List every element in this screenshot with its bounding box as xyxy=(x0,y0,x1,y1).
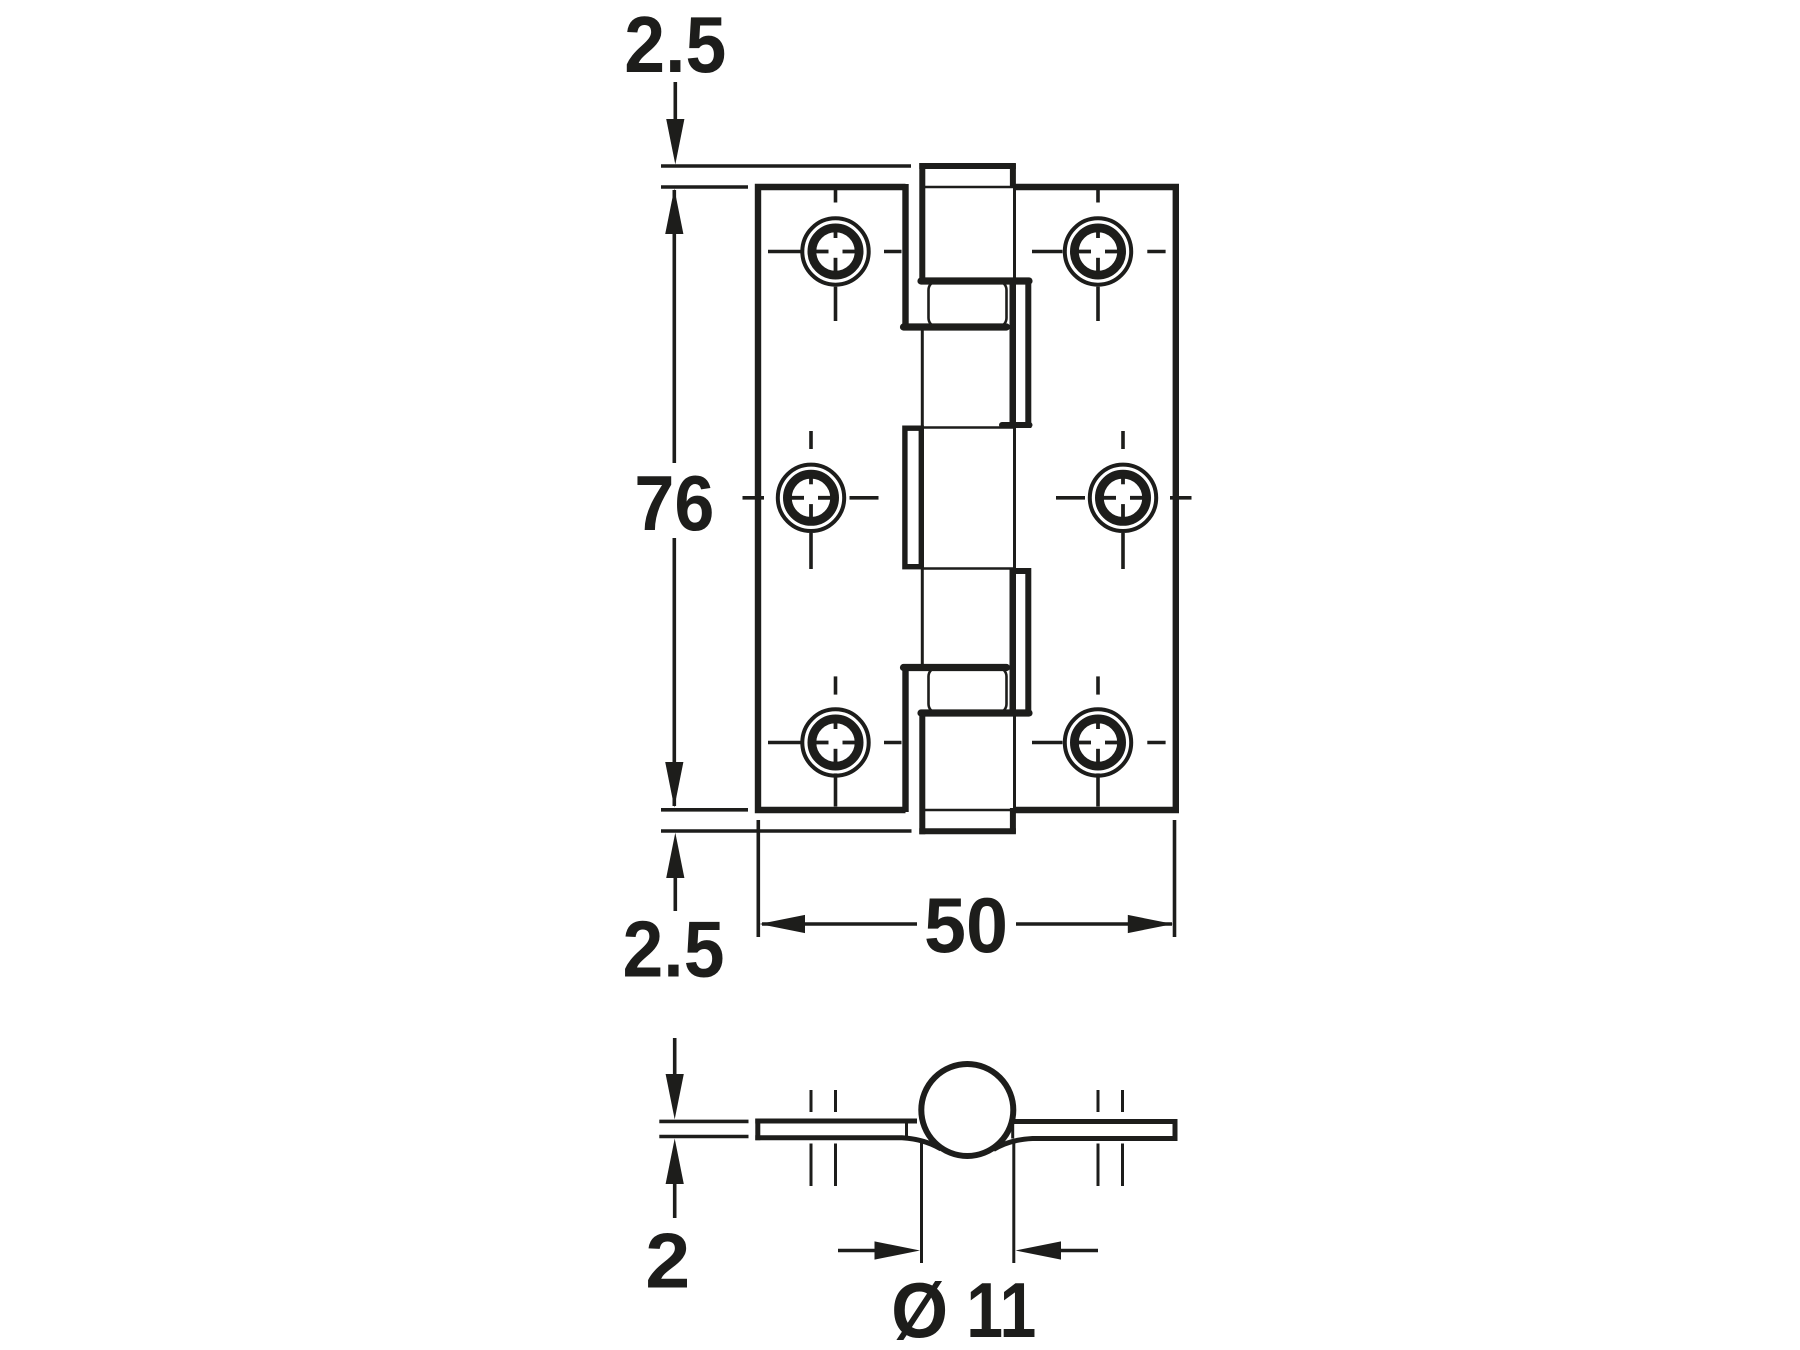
left leaf right edge lower segment xyxy=(902,665,908,812)
right bracket bottom (knuckle segment 4) xyxy=(1013,571,1029,713)
right bracket top (knuckle segment 2) xyxy=(1013,281,1029,425)
right bracket top foot xyxy=(1002,422,1030,428)
extension line (leaf bottom level) xyxy=(661,808,748,812)
2 extension line upper xyxy=(659,1120,748,1124)
2 arrow down shaft xyxy=(673,1038,677,1080)
arrow 2.5 top head xyxy=(666,119,684,165)
svg-text:50: 50 xyxy=(924,881,1008,969)
screw centre dashed lines left pair xyxy=(811,1090,836,1186)
50 arrow right xyxy=(1128,915,1174,933)
left plate end cap xyxy=(755,1119,760,1141)
Ø11 extension line right xyxy=(1012,1142,1015,1263)
Ø11 extension line left xyxy=(920,1142,923,1263)
svg-text:2.5: 2.5 xyxy=(624,0,726,89)
arrow 2.5 bottom shaft xyxy=(673,874,677,911)
Ø11 right arrow shaft xyxy=(1056,1249,1098,1253)
extension line (leaf top level) xyxy=(661,185,748,189)
extension line top (cap top level) xyxy=(661,164,911,168)
hole mid-left xyxy=(743,431,879,569)
segment boundary thin line at 427 xyxy=(922,426,1014,429)
Ø11 right arrow head xyxy=(1016,1241,1062,1259)
left plate seam xyxy=(905,1121,908,1138)
76 dim line lower part xyxy=(672,538,676,806)
knuckle sleeve A thin rounded rect xyxy=(929,281,1007,327)
right plate seam xyxy=(1011,1122,1014,1139)
Ø11 left arrow head xyxy=(875,1241,921,1259)
50 dim line left segment xyxy=(762,922,917,926)
svg-text:2.5: 2.5 xyxy=(623,905,725,994)
arrow 2.5 top shaft xyxy=(673,82,677,125)
sleeve A bottom heavy line xyxy=(904,323,1007,330)
2 arrow up shaft xyxy=(673,1180,677,1218)
76 arrow down xyxy=(665,762,683,808)
hole bottom-right xyxy=(1032,676,1166,806)
right plate top edge xyxy=(1014,1119,1178,1124)
hole top-left xyxy=(768,190,902,321)
knuckle circle (section) xyxy=(921,1064,1013,1156)
sleeve B top heavy line xyxy=(904,664,1007,671)
50 extension line right xyxy=(1173,820,1177,937)
2 extension line lower xyxy=(659,1135,748,1139)
50 dim line right segment xyxy=(1016,922,1172,926)
knuckle left edge thin mid segments xyxy=(921,327,924,428)
right leaf left edge (thin) xyxy=(1013,187,1016,810)
extension line (cap bottom level) xyxy=(661,829,912,833)
left leaf outline xyxy=(758,187,906,810)
knuckle left edge heavy bottom segment xyxy=(919,713,925,834)
screw centre dashed lines right pair xyxy=(1098,1090,1123,1186)
svg-text:Ø: Ø xyxy=(891,1266,948,1350)
76 dim line upper part xyxy=(672,190,676,463)
segment boundary thin line at 569 xyxy=(922,567,1014,570)
svg-text:11: 11 xyxy=(966,1266,1036,1350)
arrow 2.5 bottom head xyxy=(666,833,684,878)
2 arrow up head xyxy=(666,1139,684,1185)
Ø11 left arrow shaft xyxy=(838,1249,880,1253)
hole top-right xyxy=(1032,190,1166,321)
left leaf right edge upper segment xyxy=(902,184,908,330)
knuckle top cap xyxy=(919,163,1016,169)
50 extension line left xyxy=(756,820,760,937)
right leaf outline xyxy=(1015,187,1176,810)
left bracket mid (knuckle segment 3) xyxy=(905,428,921,567)
hole mid-right xyxy=(1056,431,1192,569)
left plate bottom edge with wrap curve xyxy=(755,1138,941,1149)
50 arrow left xyxy=(760,915,806,933)
sleeve B bottom heavy line xyxy=(921,709,1029,716)
right plate end cap xyxy=(1173,1119,1178,1141)
right plate bottom edge with wrap curve xyxy=(994,1139,1178,1150)
2 arrow down head xyxy=(666,1074,684,1119)
knuckle bottom cap xyxy=(919,828,1016,834)
hole bottom-left xyxy=(768,676,902,806)
76 arrow up xyxy=(665,189,683,235)
sleeve A top heavy line xyxy=(921,277,1029,284)
left plate top edge xyxy=(755,1119,917,1124)
knuckle sleeve B thin rounded rect xyxy=(929,668,1007,714)
svg-text:2: 2 xyxy=(645,1217,690,1305)
svg-text:76: 76 xyxy=(634,459,714,547)
knuckle left edge heavy top segment xyxy=(919,163,925,281)
